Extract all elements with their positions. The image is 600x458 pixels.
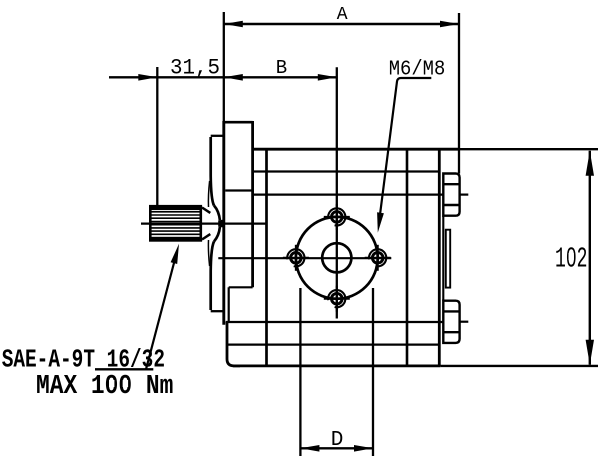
svg-text:MAX 100 Nm: MAX 100 Nm (36, 372, 173, 402)
svg-text:31,5: 31,5 (170, 56, 220, 81)
svg-text:D: D (331, 429, 344, 452)
svg-text:M6/M8: M6/M8 (389, 59, 446, 82)
svg-text:A: A (337, 5, 348, 25)
svg-text:SAE-A-9T 16/32: SAE-A-9T 16/32 (2, 345, 165, 375)
svg-text:B: B (276, 57, 287, 79)
